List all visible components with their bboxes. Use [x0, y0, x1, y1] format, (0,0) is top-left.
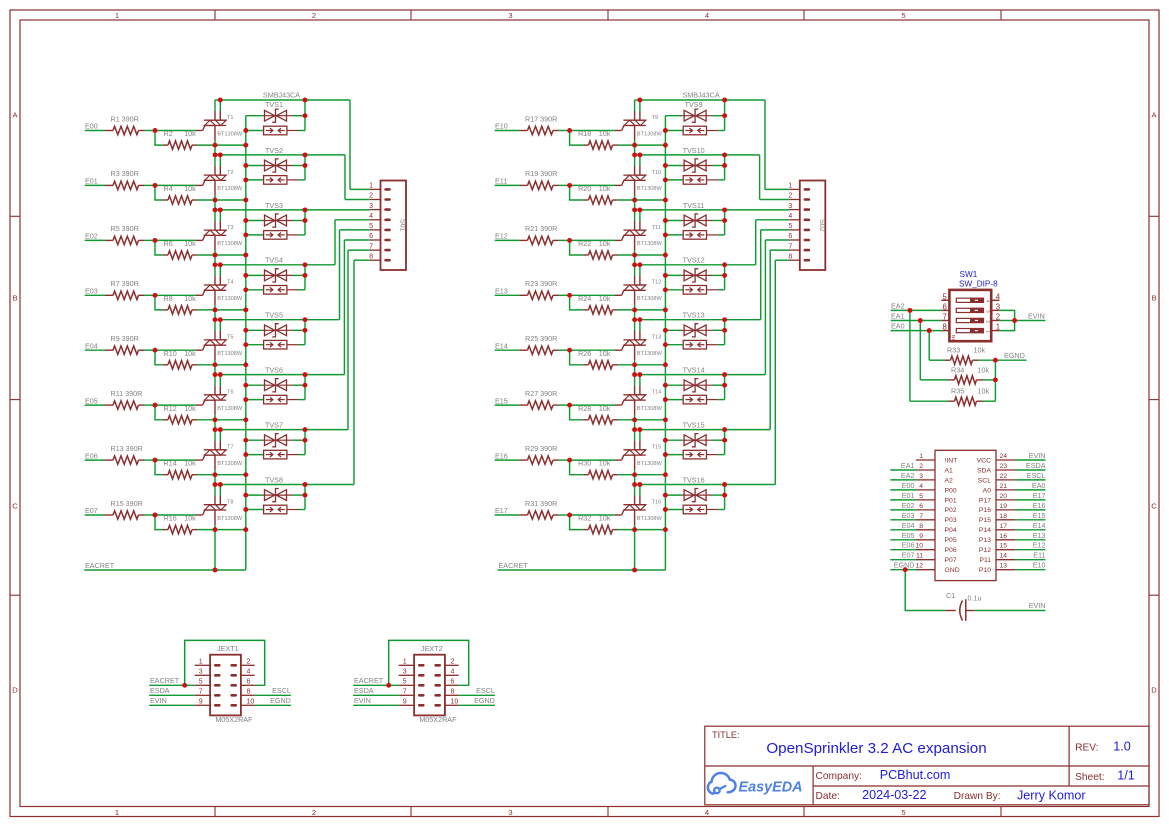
svg-text:R2: R2 — [164, 129, 173, 138]
svg-text:8: 8 — [919, 523, 923, 530]
SW1 left pin 8 stub — [941, 330, 949, 332]
triac T2 BT1308W — [204, 174, 226, 176]
IC pin 16 (P13) — [996, 539, 1015, 541]
svg-text:E15: E15 — [1033, 511, 1046, 520]
resistor R4 10k — [163, 199, 168, 201]
wire column joining previous channel bottom row to rail — [634, 420, 636, 430]
svg-text:2: 2 — [247, 659, 251, 666]
wire R10 to MT1 bottom row — [197, 364, 246, 366]
svg-text:C: C — [1151, 502, 1157, 511]
wire C1 to EVIN — [975, 610, 1046, 612]
svg-text:TVS2: TVS2 — [265, 146, 283, 155]
svg-text:EA1: EA1 — [901, 461, 915, 470]
junction MT2 at rail — [637, 427, 642, 432]
wire E06 to R13 — [85, 459, 105, 461]
wire R29 to gate node — [559, 459, 570, 461]
svg-text:1: 1 — [199, 659, 203, 666]
wire TVS right column — [724, 320, 726, 345]
svg-text:E04: E04 — [902, 521, 915, 530]
svg-text:R6: R6 — [164, 239, 173, 248]
svg-text:R29 390R: R29 390R — [525, 444, 557, 453]
resistor R5 390R — [105, 239, 113, 241]
svg-text:SCL: SCL — [978, 477, 991, 484]
wire column joining previous channel bottom row to rail — [214, 365, 216, 375]
triac T4 BT1308W — [204, 284, 226, 286]
svg-text:3: 3 — [508, 808, 512, 817]
JEXT1 pin 2 pad — [230, 664, 237, 667]
svg-text:EA2: EA2 — [891, 301, 905, 310]
svg-text:P05: P05 — [945, 537, 957, 544]
wire R9 to gate node — [144, 349, 155, 351]
wire R18 to MT1 bottom row — [618, 144, 666, 146]
resistor R14 10k — [163, 474, 168, 476]
resistor R26 10k — [584, 364, 589, 366]
svg-text:4: 4 — [788, 213, 792, 220]
svg-text:R13 390R: R13 390R — [111, 444, 143, 453]
junction spark gap left — [663, 177, 668, 182]
junction EACRET at JEXT2 — [386, 683, 391, 688]
svg-text:ESCL: ESCL — [476, 686, 495, 695]
wire gate node to T2 gate — [155, 184, 196, 186]
wire MT1 to bottom row — [634, 250, 636, 255]
junction gate node E07 — [153, 513, 158, 518]
triac T13 BT1308W — [623, 339, 645, 341]
TVS diode TVS13 SMBJ43CA bidirectional — [665, 329, 682, 331]
junction bottom row at TVS column — [243, 253, 248, 258]
svg-text:VCC: VCC — [977, 457, 991, 464]
spark gap element of TVS8 — [246, 509, 264, 511]
TVS diode TVS11 SMBJ43CA bidirectional — [665, 220, 682, 222]
wire channel output to S02 pin 2 — [759, 155, 761, 200]
wire MT2 to top rail — [214, 485, 216, 496]
svg-text:1: 1 — [403, 659, 407, 666]
wire channel output to S01 pin 4 — [334, 220, 336, 265]
T2 MT2 pins up to rail — [214, 166, 216, 175]
T9 gate pin — [615, 130, 622, 132]
IC pin 11 (P07) — [916, 559, 935, 561]
wire gate node down to R20 — [570, 185, 584, 200]
junction EGND at IC pin 12 — [903, 567, 908, 572]
svg-text:E01: E01 — [85, 177, 98, 186]
S01 pin 5 line — [370, 229, 381, 231]
T4 MT1 pin down — [214, 290, 216, 305]
svg-text:10: 10 — [915, 543, 923, 550]
wire gate node down to R8 — [155, 295, 163, 310]
svg-text:BT1308W: BT1308W — [217, 241, 243, 247]
svg-text:16: 16 — [1000, 533, 1008, 540]
wire TVS right column — [304, 155, 306, 180]
S01 pin 7 pad — [384, 249, 391, 252]
wire MT2 to top rail — [634, 100, 636, 111]
svg-text:M05X2RAF: M05X2RAF — [215, 715, 253, 724]
junction MT2 at rail — [218, 207, 223, 212]
wire channel output to S01 pin 6 — [343, 240, 345, 375]
svg-text:E03: E03 — [85, 287, 98, 296]
wire R25 to gate node — [559, 349, 570, 351]
svg-text:6: 6 — [247, 679, 251, 686]
svg-text:E16: E16 — [1033, 501, 1046, 510]
T1 MT1 pin down — [214, 126, 216, 141]
junction rail left corner — [632, 152, 637, 157]
svg-text:7: 7 — [942, 313, 946, 322]
T9 MT2 pins up to rail — [634, 111, 636, 120]
junction spark gap left — [243, 452, 248, 457]
wire ESCL to IC pin 22 — [1015, 479, 1045, 481]
resistor R29 390R — [520, 459, 528, 461]
wire column joining previous channel bottom row to rail — [214, 420, 216, 430]
JEXT1 pin 1 pad — [214, 664, 221, 667]
svg-text:5: 5 — [901, 808, 905, 817]
svg-text:P16: P16 — [979, 507, 991, 514]
wire MT1 to bottom row — [634, 415, 636, 420]
junction rail left corner — [632, 317, 637, 322]
resistor R33 10k — [929, 359, 944, 361]
wire channel output to S02 pin 4 — [755, 220, 757, 265]
svg-text:TVS5: TVS5 — [265, 311, 283, 320]
JEXT2 pin 5 pad — [418, 684, 425, 687]
T15 MT1 pin down — [634, 455, 636, 470]
junction TVS6 right — [303, 383, 308, 388]
T11 MT2 pins up to rail — [634, 221, 636, 230]
svg-text:P12: P12 — [979, 547, 991, 554]
wire TVS right column — [724, 375, 726, 400]
junction spark gap left — [243, 287, 248, 292]
resistor R21 390R — [520, 239, 528, 241]
T5 MT2 pins up to rail — [214, 331, 216, 340]
wire R11 to gate node — [144, 404, 155, 406]
wire TVS right column — [304, 375, 306, 400]
junction TVS5 right — [303, 328, 308, 333]
wire gate node to T11 gate — [570, 239, 615, 241]
T7 gate pin — [196, 459, 203, 461]
TVS diode TVS3 SMBJ43CA bidirectional — [246, 220, 263, 222]
wire TVS right column — [724, 155, 726, 180]
junction rail at TVS right column — [722, 427, 727, 432]
svg-text:C1: C1 — [946, 591, 955, 600]
JEXT1 pin 10 line — [241, 704, 255, 706]
JEXT1 pin 4 line — [241, 674, 255, 676]
junction TVS15 right — [722, 438, 727, 443]
svg-text:4: 4 — [919, 483, 923, 490]
svg-text:EACRET: EACRET — [499, 561, 529, 570]
spark gap element of TVS14 — [665, 399, 683, 401]
svg-text:S02: S02 — [818, 219, 825, 232]
wire column joining previous channel bottom row to rail — [214, 145, 216, 155]
svg-text:R17 390R: R17 390R — [525, 114, 557, 123]
svg-text:REV:: REV: — [1075, 742, 1098, 753]
wire channel output to S01 pin 1 — [349, 100, 351, 189]
wire EA2 to IC pin 3 — [890, 479, 916, 481]
svg-text:6: 6 — [451, 679, 455, 686]
svg-text:3: 3 — [403, 669, 407, 676]
T3 gate pin — [196, 239, 203, 241]
svg-text:3: 3 — [788, 203, 792, 210]
svg-text:P01: P01 — [945, 497, 957, 504]
IC pin 17 (P14) — [996, 529, 1015, 531]
resistor R2 10k — [163, 144, 168, 146]
spark gap element of TVS10 — [665, 179, 683, 181]
JEXT1 pin 2 line — [241, 664, 255, 666]
svg-text:D: D — [12, 686, 18, 695]
wire top rail of channel (TVS6 net) — [215, 374, 344, 376]
wire gate node to T13 gate — [570, 349, 615, 351]
junction MT2 at rail — [637, 98, 642, 103]
junction rail at TVS right column — [303, 482, 308, 487]
resistor R16 10k — [163, 529, 168, 531]
wire top rail of channel (TVS12 net) — [635, 264, 756, 266]
resistor R8 10k — [163, 309, 168, 311]
junction rail at TVS right column — [722, 152, 727, 157]
svg-text:R3 390R: R3 390R — [111, 169, 139, 178]
wire gate node down to R22 — [570, 240, 584, 255]
JEXT2 pin 5 line — [399, 684, 414, 686]
spark gap element of TVS11 — [665, 234, 683, 236]
svg-text:EACRET: EACRET — [85, 561, 115, 570]
svg-text:Jerry Komor: Jerry Komor — [1017, 788, 1086, 802]
svg-text:R30: R30 — [578, 459, 591, 468]
svg-text:14: 14 — [1000, 553, 1008, 560]
wire EACRET loop to JEXT2 pin 6 — [389, 640, 469, 685]
svg-text:2024-03-22: 2024-03-22 — [862, 788, 926, 802]
svg-text:10k: 10k — [184, 349, 196, 358]
junction TVS10 left — [663, 163, 668, 168]
resistor R20 10k — [584, 199, 589, 201]
S02 pin 8 line — [789, 259, 800, 261]
svg-text:TVS1: TVS1 — [265, 100, 283, 109]
wire E02 to IC pin 6 — [890, 509, 916, 511]
svg-text:2: 2 — [788, 193, 792, 200]
junction rail left corner — [213, 317, 218, 322]
S02 pin 8 pad — [804, 259, 811, 262]
S01 pin 2 pad — [384, 198, 391, 201]
svg-text:P00: P00 — [945, 487, 957, 494]
wire MT1 to bottom row — [634, 525, 636, 530]
S01 pin 2 line — [370, 199, 381, 201]
junction spark gap left — [243, 397, 248, 402]
junction MT2 at rail — [637, 317, 642, 322]
JEXT1 pin 3 pad — [214, 674, 221, 677]
svg-text:S01: S01 — [399, 219, 406, 232]
junction gate node E15 — [567, 403, 572, 408]
JEXT1 pin 5 pad — [214, 684, 221, 687]
spark gap element of TVS13 — [665, 344, 683, 346]
svg-text:E04: E04 — [85, 341, 98, 350]
wire R15 to gate node — [144, 514, 155, 516]
svg-text:E01: E01 — [902, 491, 915, 500]
wire channel output to S01 pin 7 — [347, 250, 349, 430]
wire E05 to R11 — [85, 404, 105, 406]
svg-text:E06: E06 — [85, 451, 98, 460]
S01 pin 8 pad — [384, 259, 391, 262]
wire gate node down to R24 — [570, 295, 584, 310]
T6 MT2 pins up to rail — [214, 386, 216, 395]
resistor R25 390R — [520, 349, 528, 351]
wire MT1 to bottom row — [634, 470, 636, 475]
svg-text:ESDA: ESDA — [1026, 461, 1046, 470]
svg-text:R23 390R: R23 390R — [525, 279, 557, 288]
junction spark gap left — [663, 397, 668, 402]
triac T11 BT1308W — [623, 229, 645, 231]
svg-text:8: 8 — [942, 323, 946, 332]
wire R5 to gate node — [144, 239, 155, 241]
svg-text:R12: R12 — [164, 404, 177, 413]
svg-text:10k: 10k — [978, 386, 990, 395]
wire MT2 to top rail — [214, 430, 216, 441]
wire E10 to IC pin 13 — [1015, 569, 1045, 571]
S02 pin 4 line — [789, 219, 800, 221]
wire R26 to MT1 bottom row — [618, 364, 666, 366]
TVS diode TVS8 SMBJ43CA bidirectional — [246, 494, 263, 496]
wire E16 to IC pin 19 — [1015, 509, 1045, 511]
svg-text:!INT: !INT — [945, 457, 958, 464]
resistor R6 10k — [163, 254, 168, 256]
SW1 switch element 4 — [956, 329, 983, 333]
wire R33 to EGND — [979, 359, 1027, 361]
wire MT1 to bottom row — [634, 360, 636, 365]
wire JEXT1 pin 10 to EGND — [255, 704, 291, 706]
wire column joining previous channel bottom row to rail — [634, 365, 636, 375]
JEXT1 pin 1 line — [195, 664, 210, 666]
junction rail at TVS right column — [303, 98, 308, 103]
SW1 switch element 1 — [956, 298, 983, 302]
wire channel output to S02 pin 5 — [760, 230, 762, 320]
svg-text:EA2: EA2 — [901, 471, 915, 480]
resistor R19 390R — [520, 184, 528, 186]
JEXT1 pin 5 line — [195, 684, 210, 686]
junction gate node E10 — [567, 128, 572, 133]
svg-text:M05X2RAF: M05X2RAF — [419, 715, 457, 724]
TVS diode TVS1 SMBJ43CA bidirectional — [246, 115, 263, 117]
junction TVS14 left — [663, 383, 668, 388]
wire R7 to gate node — [144, 294, 155, 296]
resistor R24 10k — [584, 309, 589, 311]
svg-text:P07: P07 — [945, 557, 957, 564]
svg-text:11: 11 — [916, 553, 923, 560]
svg-text:T13: T13 — [652, 335, 662, 341]
T15 MT2 pins up to rail — [634, 441, 636, 450]
svg-text:TVS4: TVS4 — [265, 256, 283, 265]
junction bottom row at TVS column — [243, 362, 248, 367]
svg-text:8: 8 — [369, 253, 373, 260]
wire MT2 to top rail — [634, 265, 636, 276]
triac T10 BT1308W — [623, 174, 645, 176]
resistor R30 10k — [584, 474, 589, 476]
svg-text:E14: E14 — [495, 341, 508, 350]
junction bottom row at TVS column — [243, 417, 248, 422]
svg-text:PCBhut.com: PCBhut.com — [880, 768, 951, 782]
wire MT2 to top rail — [214, 375, 216, 386]
svg-text:EVIN: EVIN — [1029, 451, 1046, 460]
T16 MT2 pins up to rail — [634, 496, 636, 505]
IC pin 10 (P06) — [916, 549, 935, 551]
wire to EVIN label — [1015, 320, 1046, 322]
wire MT1 to bottom row — [214, 360, 216, 365]
svg-text:E17: E17 — [495, 506, 508, 515]
svg-text:7: 7 — [788, 243, 792, 250]
svg-text:1: 1 — [115, 808, 119, 817]
junction TVS16 left — [663, 493, 668, 498]
junction MT1 T15 — [632, 472, 637, 477]
svg-text:R31 390R: R31 390R — [525, 499, 557, 508]
T7 MT2 pins up to rail — [214, 441, 216, 450]
wire gate node to T3 gate — [155, 239, 196, 241]
svg-text:1/1: 1/1 — [1117, 768, 1135, 782]
svg-text:6: 6 — [942, 302, 946, 311]
svg-text:ESDA: ESDA — [150, 686, 170, 695]
S01 pin 6 pad — [384, 239, 391, 242]
S02 pin 6 line — [789, 239, 800, 241]
wire EA1 to IC pin 2 — [890, 469, 916, 471]
svg-text:SW1: SW1 — [960, 270, 978, 279]
wire MT1 to bottom row — [214, 250, 216, 255]
IC pin 20 (P17) — [996, 499, 1015, 501]
T12 MT2 pins up to rail — [634, 276, 636, 285]
junction EACRET at MT1 column — [632, 568, 637, 573]
junction bottom row at TVS column — [243, 198, 248, 203]
wire MT2 to top rail — [634, 320, 636, 331]
svg-text:BT1308W: BT1308W — [637, 351, 663, 357]
junction spark gap left — [243, 128, 248, 133]
svg-text:10k: 10k — [599, 459, 611, 468]
svg-text:9: 9 — [919, 533, 923, 540]
junction rail at TVS right column — [722, 98, 727, 103]
T4 gate pin — [196, 294, 203, 296]
svg-text:R32: R32 — [578, 514, 591, 523]
EasyEDA logo cloud — [708, 773, 736, 794]
wire TVS right column — [304, 210, 306, 235]
svg-text:Sheet:: Sheet: — [1075, 772, 1104, 783]
svg-text:TVS14: TVS14 — [683, 366, 705, 375]
svg-text:8: 8 — [451, 689, 455, 696]
SW1 right pin 1 stub — [991, 330, 999, 332]
wire MT1 to bottom row — [634, 141, 636, 146]
wire R23 to gate node — [559, 294, 570, 296]
wire E02 to R5 — [85, 239, 105, 241]
wire R34 right to EGND column — [983, 379, 996, 381]
svg-text:4: 4 — [451, 669, 455, 676]
svg-text:EVIN: EVIN — [150, 696, 167, 705]
svg-text:BT1308W: BT1308W — [217, 516, 243, 522]
svg-text:T12: T12 — [652, 280, 662, 286]
svg-text:10k: 10k — [974, 346, 986, 355]
svg-text:BT1308W: BT1308W — [637, 186, 663, 192]
svg-text:A1: A1 — [945, 467, 954, 474]
T6 MT1 pin down — [214, 400, 216, 415]
junction rail at TVS right column — [722, 317, 727, 322]
wire E12 to IC pin 15 — [1015, 549, 1045, 551]
junction MT2 at rail — [218, 152, 223, 157]
junction bottom row at TVS column — [243, 472, 248, 477]
IC pin 21 (A0) — [996, 489, 1015, 491]
svg-text:EasyEDA: EasyEDA — [739, 779, 803, 795]
S01 pin 1 line — [370, 188, 381, 190]
wire E05 to IC pin 9 — [890, 539, 916, 541]
junction spark gap left — [663, 342, 668, 347]
resistor R28 10k — [584, 419, 589, 421]
IC pin 1 (!INT) — [916, 459, 935, 461]
svg-text:E00: E00 — [902, 481, 915, 490]
svg-text:BT1308W: BT1308W — [217, 461, 243, 467]
svg-text:10k: 10k — [184, 184, 196, 193]
T12 MT1 pin down — [634, 290, 636, 305]
JEXT1 pin 3 line — [195, 674, 210, 676]
T10 MT2 pins up to rail — [634, 166, 636, 175]
junction rail left corner — [213, 207, 218, 212]
wire column joining previous channel bottom row to rail — [634, 310, 636, 320]
wire R27 to gate node — [559, 404, 570, 406]
svg-text:19: 19 — [1000, 503, 1008, 510]
svg-text:10k: 10k — [599, 294, 611, 303]
